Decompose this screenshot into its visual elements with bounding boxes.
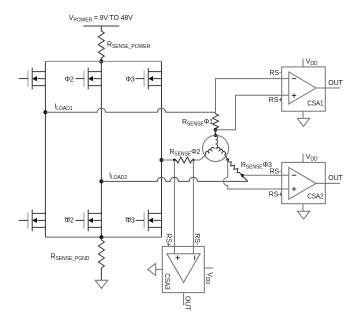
wire: Q1 drain [44,61,46,71]
svg-text:CSA3: CSA3 [163,273,170,290]
svg-text:RSENSE_PGND: RSENSE_PGND [51,254,90,263]
transistor Q4 (bottom, phase 1) [19,210,46,232]
node Φ3 gate label [126,76,145,83]
wire: CSA3 RS- lead [192,160,194,254]
wire: RS+ tap to CSA1 [216,95,289,129]
wire: CSA1 OUT [316,87,340,89]
wire: winding 3 to R_SENSE_Phi3 [225,155,230,162]
wire: bottom rail [45,236,161,238]
node: RS- tap arrow on R_SENSE_Phi3 [240,174,244,178]
wire [100,26,102,31]
resistor R_SENSE_POWER [98,31,150,58]
svg-text:Φ2: Φ2 [65,76,74,83]
motor M (3-phase wye windings) [203,135,229,161]
node: motor terminal 1 [214,134,217,137]
node Φ3-bar gate label [126,218,145,225]
wire [162,159,177,161]
resistor R_SENSE_Phi2 [169,149,200,163]
ground CSA3 [148,263,163,275]
svg-text:RS-: RS- [270,169,282,176]
resistor R_SENSE_Phi1 [182,114,219,129]
svg-text:RSENSEΦ3: RSENSEΦ3 [241,162,272,171]
wire: top supply rail [45,60,161,62]
wire: Q2 drain [100,61,102,71]
ground CSA1 [297,111,309,126]
resistor R_SENSE_PGND [51,237,105,280]
svg-text:RSENSE_POWER: RSENSE_POWER [107,42,151,51]
transistor Q5 (bottom, phase 2) [84,210,101,232]
op-amp U2 CSA2 [269,162,344,203]
svg-text:OUT: OUT [184,296,191,311]
svg-text:RS+: RS+ [165,233,172,246]
wire: CSA3 VDD pin [204,268,213,284]
wire: CSA3 OUT [183,293,185,306]
node: supply rail junction [99,59,103,63]
node: R_SENSE_PGND junction [99,235,103,239]
node: CSA3 RS- tap [192,159,195,162]
svg-text:VDD: VDD [306,154,318,163]
wire: CSA3 RS+ lead [173,160,175,254]
transistor Q1 (top, phase 1) [19,68,46,90]
wire: CSA2 VDD pin [303,154,318,163]
svg-text:CSA2: CSA2 [307,194,324,201]
wire: Q3 drain [161,61,163,71]
svg-text:OUT: OUT [328,80,343,87]
svg-text:Φ2: Φ2 [65,218,74,225]
node V_POWER supply terminal [69,15,133,26]
wire: I_LOAD2 rail with hops [101,172,247,181]
ground CSA2 [297,204,309,219]
wire: CSA1 VDD pin [303,59,318,68]
node: motor winding 3 junction [226,158,229,161]
node: R_SENSE_Phi1 bottom tap [214,128,218,132]
wire [100,58,102,61]
svg-text:ILOAD1: ILOAD1 [55,104,73,113]
svg-text:RSENSEΦ1: RSENSEΦ1 [182,119,213,128]
node Φ2-bar gate label [65,218,85,225]
svg-text:RS-: RS- [193,233,200,245]
svg-text:VDD: VDD [204,272,213,284]
svg-text:CSA1: CSA1 [307,100,324,107]
node I_LOAD2 [99,179,103,183]
wire: RS+ to CSA2 (hops over I_LOAD2) [223,160,288,189]
node: phase3 / R_SENSE_Phi2 junction [160,158,164,162]
wire: phase 2 leg [100,86,102,214]
wire: Q4 source [44,227,46,237]
resistor R_SENSE_Phi3 (diagonal) [229,162,272,182]
wire: CSA2 OUT [316,182,340,184]
svg-text:OUT: OUT [328,175,343,182]
op-amp U1 CSA1 [269,67,344,111]
svg-text:RSENSEΦ2: RSENSEΦ2 [169,149,200,158]
wire: Q6 source [161,227,163,237]
svg-text:VDD: VDD [306,59,318,68]
op-amp U3 CSA3 (rotated 90deg CW) [162,233,204,311]
node I_LOAD1 [43,110,47,114]
ground (power ground) [95,280,108,288]
wire: phase 3 leg [161,86,163,214]
wire: I_LOAD1 rail with hops [45,104,215,114]
wire: Q5 source [100,227,102,237]
transistor Q6 (bottom, phase 3) [144,210,161,232]
svg-text:ILOAD2: ILOAD2 [109,172,127,181]
svg-text:Φ3: Φ3 [126,218,135,225]
wire: to motor winding 2 [192,155,206,160]
wire: motor terminal 1 [215,130,217,136]
svg-text:RS+: RS+ [269,97,282,104]
svg-text:VPOWER = 9V TO 48V: VPOWER = 9V TO 48V [69,15,133,24]
node: CSA3 RS+ tap [173,159,176,162]
transistor Q2 (top, phase 2) [84,68,101,90]
svg-text:RS+: RS+ [269,191,282,198]
wire: RS- to CSA2 [244,174,289,176]
wire: RS- tap to CSA1 [216,79,289,113]
wire: phase 1 leg [44,86,46,214]
transistor Q3 (top, phase 3) [144,68,161,90]
svg-text:Φ3: Φ3 [126,76,135,83]
svg-text:RS-: RS- [270,70,282,77]
node Φ2 gate label [65,76,85,83]
